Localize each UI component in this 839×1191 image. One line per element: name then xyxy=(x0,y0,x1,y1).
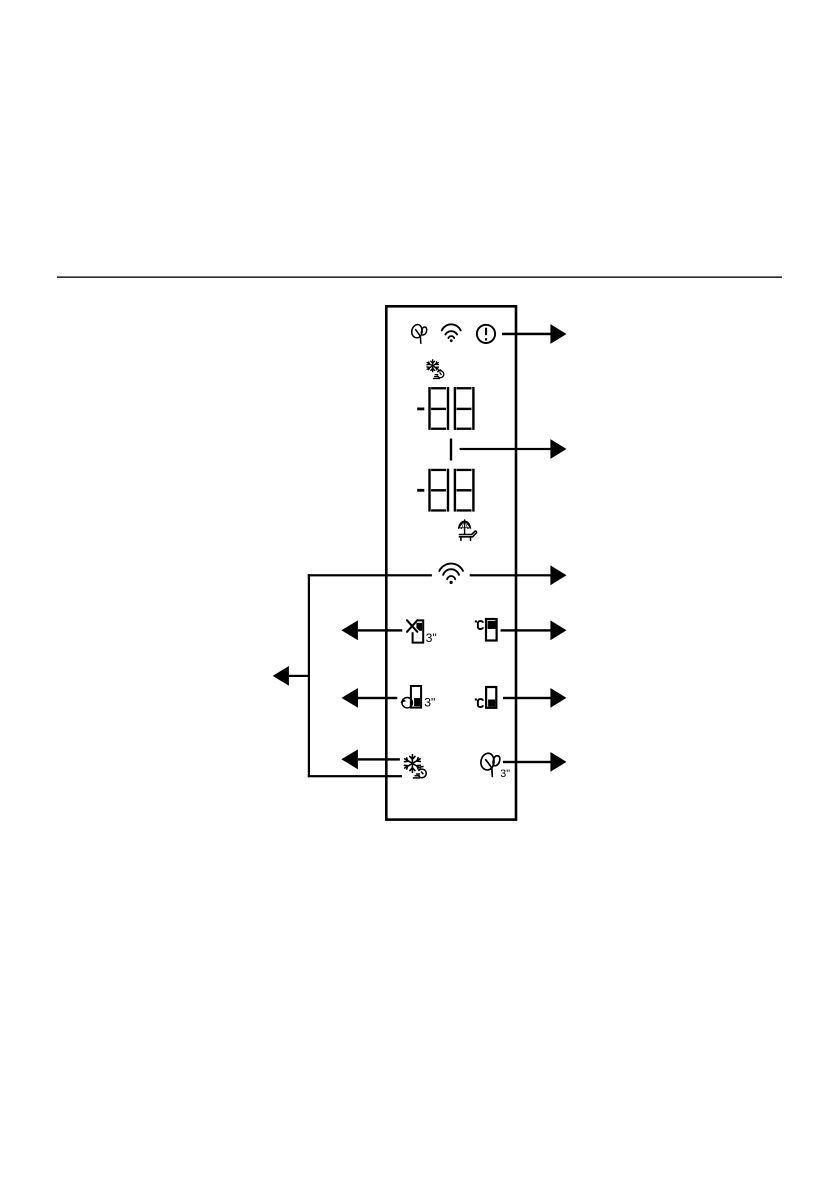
arrow from eco button xyxy=(503,752,567,772)
arrow from fridge temperature button xyxy=(501,620,567,640)
wifi button icon xyxy=(439,564,463,580)
upper display digit 8 (tens) xyxy=(428,387,449,430)
upper temperature display minus sign xyxy=(417,408,424,411)
wifi indicator icon xyxy=(442,324,461,338)
arrow to alarm indicator xyxy=(502,324,567,344)
super freeze button icon (snowflake with timer) xyxy=(404,755,420,773)
holiday mode indicator (umbrella and lounger) xyxy=(458,520,471,534)
lower display digit 8 (tens) xyxy=(428,469,449,512)
svg-text:3": 3" xyxy=(424,696,435,710)
bracket left arrow xyxy=(273,666,309,686)
defrost button icon (cycle door, 3s) xyxy=(400,686,435,710)
wire from bracket to wifi button xyxy=(308,574,432,576)
lower display digit 8 (ones) xyxy=(454,469,475,512)
arrow from wifi button xyxy=(470,565,567,585)
fast-freeze indicator icon (snowflake with timer) xyxy=(427,360,438,372)
bracket vertical wire xyxy=(308,574,310,777)
freezer temperature button icon xyxy=(475,687,497,708)
door alarm button icon (X door, 3s) xyxy=(407,620,437,645)
arrow from door alarm button xyxy=(341,620,402,640)
eco indicator leaf icon xyxy=(412,325,427,344)
display separator bar xyxy=(450,439,452,461)
arrow to display separator xyxy=(460,439,567,459)
arrow from super freeze button xyxy=(341,749,400,769)
arrow from defrost button xyxy=(342,688,398,708)
bracket bottom wire xyxy=(308,775,402,777)
svg-text:3": 3" xyxy=(426,631,437,645)
upper display digit 8 (ones) xyxy=(454,387,475,430)
horizontal rule xyxy=(57,276,782,278)
eco button icon (leaf, 3s) xyxy=(481,753,500,776)
svg-text:3": 3" xyxy=(500,768,510,780)
lower temperature display minus sign xyxy=(417,489,424,492)
control panel outline xyxy=(386,306,516,819)
alarm indicator (exclamation circle) xyxy=(477,325,495,343)
arrow from freezer temperature button xyxy=(503,688,567,708)
fridge temperature button icon xyxy=(475,619,497,641)
